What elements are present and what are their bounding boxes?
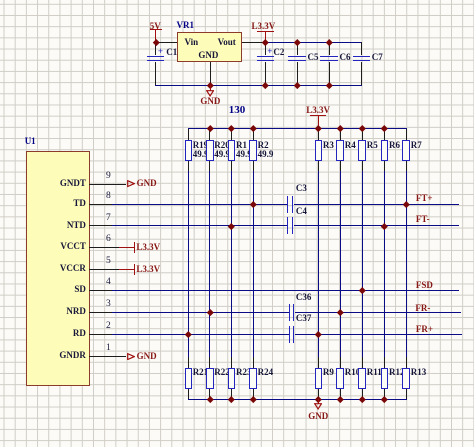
wire xyxy=(318,129,320,400)
wire xyxy=(266,42,362,44)
wire SD/FSD xyxy=(112,290,459,292)
net label FR- xyxy=(415,304,430,313)
net label FT- xyxy=(416,215,430,224)
wire TD/FT+ xyxy=(112,204,288,206)
power symbol 5V xyxy=(150,22,161,31)
power symbol GND pin1 xyxy=(127,353,135,360)
junction dot FR+ wire xyxy=(185,331,191,337)
resistor R20 xyxy=(206,140,214,161)
resistor R6 xyxy=(381,140,389,161)
resistor R23 xyxy=(228,368,236,389)
resistor R2 xyxy=(249,140,257,161)
net label FSD xyxy=(416,281,433,290)
capacitor C3 xyxy=(287,196,289,213)
resistor R4 xyxy=(336,140,344,161)
junction dot FT- wire xyxy=(228,223,234,229)
pin 1 GNDR xyxy=(89,356,126,357)
junction dot FR- wire xyxy=(207,309,213,315)
capacitor C1 xyxy=(155,42,156,55)
power symbol GND pin9 xyxy=(127,180,135,187)
pin 3 NRD xyxy=(89,312,112,313)
capacitor C4 xyxy=(287,217,289,234)
resistor R1 xyxy=(228,140,236,161)
resistor R19 xyxy=(185,140,193,161)
ground GND bottom xyxy=(318,399,319,404)
pin 5 VCCR xyxy=(89,269,119,270)
pin VR1 Vin xyxy=(157,42,178,43)
wire xyxy=(384,129,386,400)
pin 7 NTD xyxy=(89,225,112,226)
component VR1 regulator xyxy=(177,32,242,62)
ground GND below VR1 xyxy=(210,85,211,90)
pin 8 TD xyxy=(89,204,112,205)
pin stubs xyxy=(340,129,341,141)
pin stubs xyxy=(188,129,189,141)
resistor R10 xyxy=(336,368,344,389)
resistor R3 xyxy=(315,140,323,161)
pin stubs xyxy=(209,129,210,141)
pin stubs xyxy=(384,129,385,141)
junction dot FT+ wire xyxy=(250,201,256,207)
capacitor C2 xyxy=(265,42,266,55)
resistor R24 xyxy=(249,368,257,389)
pin stubs xyxy=(362,129,363,141)
junction dots cap bottom rail xyxy=(207,82,213,88)
wire xyxy=(406,129,408,400)
resistor R5 xyxy=(358,140,366,161)
wire NTD/FT- xyxy=(112,225,288,227)
capacitor C5 xyxy=(297,42,298,55)
wire xyxy=(340,129,342,400)
wire xyxy=(188,129,190,400)
pin stubs xyxy=(253,129,254,141)
pin stubs xyxy=(231,129,232,141)
resistor R11 xyxy=(358,368,366,389)
wire xyxy=(188,399,408,401)
capacitor C36 xyxy=(289,304,291,321)
pin VR1 Vout xyxy=(242,42,266,43)
pin stubs xyxy=(318,129,319,141)
pin VR1 GND xyxy=(210,62,211,86)
resistor R21 xyxy=(185,368,193,389)
resistor R9 xyxy=(315,368,323,389)
wire xyxy=(253,129,255,400)
wire xyxy=(362,129,364,400)
junction dots bottom rail xyxy=(207,396,213,402)
capacitor C7 xyxy=(361,42,362,55)
pin stubs xyxy=(406,129,407,141)
wire xyxy=(209,129,211,400)
wire NRD/FR- xyxy=(112,312,289,314)
net label FT+ xyxy=(416,194,433,203)
junction dots top rail xyxy=(153,39,159,45)
capacitor C37 xyxy=(289,326,291,343)
power symbol L3.3V pin5 xyxy=(119,269,134,270)
wire xyxy=(188,128,408,130)
capacitor C6 xyxy=(329,42,330,55)
component U1 xyxy=(26,151,91,387)
power symbol L3.3V xyxy=(252,22,276,31)
power symbol L3.3V xyxy=(306,106,330,115)
pin 2 RD xyxy=(89,334,112,335)
resistor R13 xyxy=(402,368,410,389)
wire RD/FR+ xyxy=(112,334,289,336)
pin 4 SD xyxy=(89,290,112,291)
junction dot FSD wire xyxy=(359,287,365,293)
resistor R22 xyxy=(206,368,214,389)
wire xyxy=(155,85,362,87)
resistor R7 xyxy=(402,140,410,161)
wire xyxy=(231,129,233,400)
net label 130 xyxy=(229,105,246,116)
pin 6 VCCT xyxy=(89,247,119,248)
net label FR+ xyxy=(416,325,433,334)
pin 9 GNDT xyxy=(89,184,126,185)
power symbol L3.3V pin6 xyxy=(119,247,134,248)
resistor R12 xyxy=(381,368,389,389)
junction dots resistor top rail xyxy=(207,125,213,131)
